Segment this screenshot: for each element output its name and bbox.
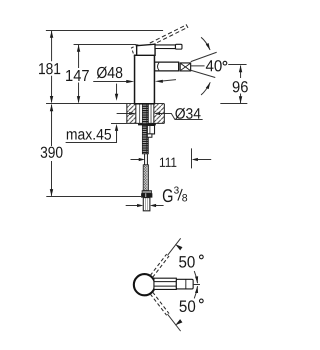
svg-text:50: 50 bbox=[179, 298, 196, 316]
svg-text:max.45: max.45 bbox=[66, 127, 112, 144]
svg-text:390: 390 bbox=[40, 145, 63, 162]
svg-text:96: 96 bbox=[232, 79, 249, 96]
svg-text:50: 50 bbox=[178, 254, 195, 272]
svg-text:40: 40 bbox=[205, 58, 222, 75]
svg-text:181: 181 bbox=[38, 61, 61, 78]
svg-text:111: 111 bbox=[159, 155, 177, 170]
svg-text:3: 3 bbox=[174, 186, 180, 197]
svg-text:147: 147 bbox=[65, 68, 90, 85]
svg-text:Ø34: Ø34 bbox=[175, 106, 201, 123]
svg-text:G: G bbox=[162, 185, 173, 206]
svg-text:Ø48: Ø48 bbox=[96, 65, 123, 82]
svg-text:8: 8 bbox=[182, 192, 188, 204]
